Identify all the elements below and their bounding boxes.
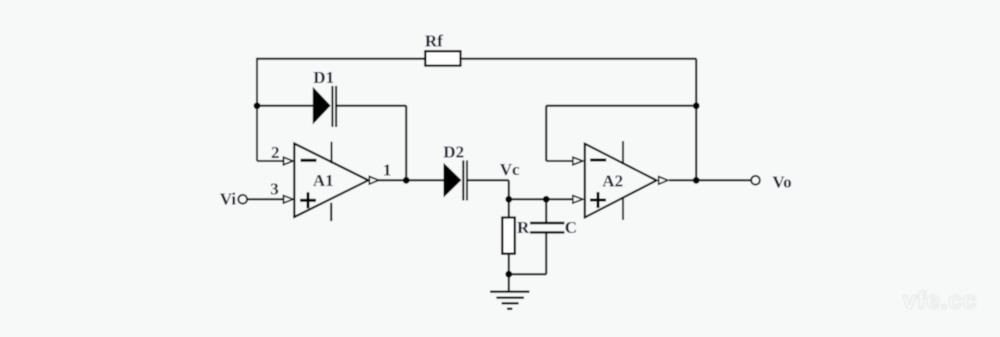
svg-text:vfe.cc: vfe.cc [903, 288, 977, 315]
svg-text:Vc: Vc [500, 160, 520, 179]
svg-text:D2: D2 [443, 143, 464, 162]
svg-text:2: 2 [271, 143, 280, 162]
svg-text:1: 1 [383, 161, 392, 180]
svg-text:A1: A1 [313, 171, 334, 190]
svg-text:R: R [517, 218, 530, 237]
svg-text:A2: A2 [602, 171, 623, 190]
svg-text:Vo: Vo [772, 172, 791, 191]
svg-text:3: 3 [270, 179, 279, 198]
svg-text:Vi: Vi [220, 190, 237, 209]
svg-text:D1: D1 [313, 68, 334, 87]
svg-text:C: C [565, 218, 577, 237]
svg-text:Rf: Rf [425, 32, 443, 51]
